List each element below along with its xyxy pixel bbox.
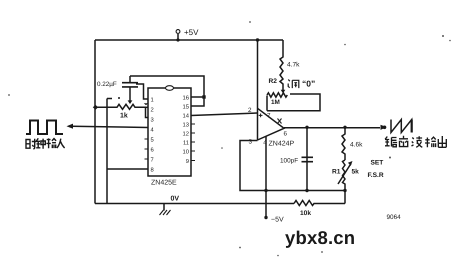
CJK label sawtooth output 锯齿波输出	[385, 136, 446, 148]
junction output/4.6k	[343, 126, 346, 129]
svg-text:13: 13	[183, 121, 189, 128]
wire op-amp output	[284, 127, 380, 129]
svg-text:5: 5	[151, 137, 154, 143]
wire left rail	[94, 40, 96, 204]
svg-text:9: 9	[186, 158, 189, 165]
svg-text:“0”: “0”	[302, 79, 315, 89]
CJK label clock input 时钟输入	[26, 138, 65, 149]
svg-text:16: 16	[183, 94, 189, 101]
svg-text:6: 6	[284, 131, 288, 138]
wire pin1 up to cap	[136, 84, 148, 99]
pin stubs right 13,12,11,10,9	[191, 124, 195, 161]
svg-text:100pF: 100pF	[280, 158, 298, 165]
pin numbers left	[151, 97, 155, 173]
wire pin14 to op-amp	[191, 113, 258, 116]
svg-text:+5V: +5V	[184, 28, 199, 37]
svg-text:12: 12	[183, 130, 189, 137]
svg-text:15: 15	[183, 104, 189, 110]
resistor R 4.7k	[280, 40, 283, 87]
svg-text:1k: 1k	[120, 112, 128, 120]
wire cap top to pins 16/15	[130, 76, 204, 97]
wire inverting input loop	[240, 141, 345, 191]
node +5V terminal	[177, 34, 179, 40]
wire IC pin8 to left	[107, 168, 148, 170]
svg-text:4.7k: 4.7k	[287, 62, 300, 69]
svg-text:0.22µF: 0.22µF	[97, 81, 117, 88]
svg-text:10k: 10k	[300, 210, 311, 217]
potentiometer R1 5k	[343, 160, 346, 204]
CJK label adjust zero 调	[288, 80, 299, 89]
junction R1/feedback	[343, 189, 346, 192]
capacitor C2 100pF	[306, 127, 308, 190]
junction output/cap	[305, 126, 308, 129]
resistor R 10k	[294, 201, 345, 206]
node output terminal	[383, 126, 387, 130]
svg-text:2: 2	[151, 106, 154, 113]
wire branch to pin 3	[146, 107, 149, 117]
capacitor C 0.22uF	[129, 76, 131, 82]
wire pot loop	[267, 94, 320, 111]
junction V+ rail	[256, 38, 259, 41]
svg-text:0V: 0V	[171, 196, 180, 203]
clock input waveform symbol	[26, 121, 63, 135]
svg-text:1: 1	[151, 97, 154, 103]
junction pins 16-15	[202, 95, 205, 98]
wire clock input to pin 4	[72, 126, 148, 127]
node -5V terminal	[264, 216, 267, 219]
scan smudge near apex	[278, 119, 282, 124]
junction inverting node	[264, 189, 267, 192]
wire pot left end down	[266, 96, 268, 111]
wire bottom 0V rail left segment	[95, 203, 294, 205]
svg-text:4.6k: 4.6k	[350, 142, 363, 149]
svg-text:F.S.R: F.S.R	[368, 172, 384, 179]
ground	[163, 204, 165, 211]
svg-text:ZN425E: ZN425E	[151, 180, 177, 187]
wire vertical x107 (pin8 / aux)	[107, 99, 112, 204]
svg-text:14: 14	[183, 113, 190, 119]
svg-text:9064: 9064	[387, 214, 402, 221]
wiper arrow into pot R2	[282, 87, 284, 90]
svg-text:6: 6	[151, 146, 154, 153]
svg-text:10: 10	[183, 148, 189, 155]
svg-text:ZN424P: ZN424P	[269, 141, 295, 148]
wire top +5V rail	[95, 39, 283, 41]
svg-text:7: 7	[151, 157, 154, 163]
IC U1 ZN425E body	[148, 88, 191, 176]
svg-text:3: 3	[151, 116, 154, 123]
svg-text:−5V: −5V	[271, 217, 284, 224]
resistor R 4.6k	[342, 127, 345, 160]
potentiometer R2 1M	[267, 93, 287, 97]
svg-text:1M: 1M	[271, 99, 280, 106]
junction +5V tap	[176, 38, 179, 41]
sawtooth output symbol	[391, 120, 412, 133]
svg-text:3: 3	[249, 139, 253, 146]
wire pins 16-15 strap	[191, 97, 204, 106]
svg-text:8: 8	[151, 166, 154, 173]
svg-text:R1: R1	[332, 169, 341, 176]
op-amp U2 ZN424P	[257, 40, 259, 140]
svg-text:11: 11	[183, 140, 189, 146]
svg-text:ybx8.cn: ybx8.cn	[285, 227, 355, 248]
pin numbers right	[183, 94, 190, 165]
junction cap/feedback	[305, 189, 308, 192]
svg-text:SET: SET	[371, 160, 384, 167]
svg-text:7: 7	[267, 113, 271, 120]
pin stubs left 5,6,7	[145, 139, 149, 159]
svg-text:R2: R2	[269, 78, 278, 85]
svg-text:2: 2	[248, 107, 252, 114]
wire pin4 to -5V	[265, 137, 267, 218]
svg-text:5k: 5k	[352, 169, 360, 176]
resistor 1k	[96, 104, 147, 109]
